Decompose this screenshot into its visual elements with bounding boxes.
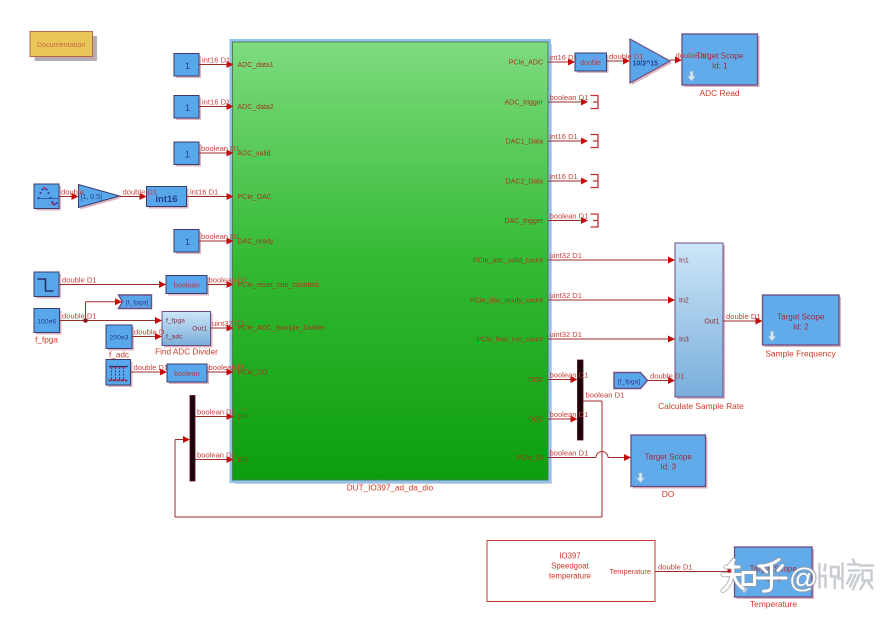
svg-text:f_fpga: f_fpga <box>35 336 58 345</box>
svg-text:double D1: double D1 <box>62 311 97 320</box>
svg-text:Speedgoat: Speedgoat <box>551 562 590 571</box>
svg-text:100e6: 100e6 <box>37 318 56 325</box>
svg-text:PCIe_DO: PCIe_DO <box>238 370 269 377</box>
svg-text:Out1: Out1 <box>704 319 719 326</box>
svg-text:int16 D1: int16 D1 <box>550 172 578 181</box>
svg-text:@: @ <box>789 563 817 594</box>
svg-text:Documentation: Documentation <box>37 40 85 49</box>
svg-text:PCIe_DI: PCIe_DI <box>517 455 544 462</box>
svg-text:1: 1 <box>185 149 190 159</box>
svg-text:DI6: DI6 <box>238 414 249 421</box>
svg-text:DUT_IO397_ad_da_dio: DUT_IO397_ad_da_dio <box>347 484 434 493</box>
svg-text:double D1: double D1 <box>123 187 158 196</box>
svg-text:PCIe_ADC: PCIe_ADC <box>509 60 543 67</box>
svg-text:int16: int16 <box>155 194 177 205</box>
svg-text:IO397: IO397 <box>559 552 580 561</box>
svg-text:ADC Read: ADC Read <box>699 88 739 98</box>
svg-text:DAC2_Data: DAC2_Data <box>506 179 543 186</box>
svg-text:[f_fpga]: [f_fpga] <box>126 300 149 307</box>
svg-text:ADC_data2: ADC_data2 <box>238 104 274 111</box>
svg-text:boolean: boolean <box>174 369 200 378</box>
svg-text:f_fpga: f_fpga <box>166 318 185 325</box>
svg-text:int16 D1: int16 D1 <box>202 97 230 106</box>
svg-text:DO2: DO2 <box>529 417 544 424</box>
svg-text:boolean D1: boolean D1 <box>201 144 240 153</box>
svg-text:1: 1 <box>185 103 190 113</box>
svg-text:Temperature: Temperature <box>610 567 652 576</box>
svg-text:Target Scope: Target Scope <box>777 313 825 322</box>
svg-text:DI6: DI6 <box>238 457 249 464</box>
svg-text:Out1: Out1 <box>192 326 207 333</box>
svg-text:Find ADC Divider: Find ADC Divider <box>155 348 218 357</box>
svg-text:In3: In3 <box>679 337 689 344</box>
svg-text:boolean D1: boolean D1 <box>550 448 589 457</box>
svg-text:boolean: boolean <box>174 281 200 290</box>
svg-text:Temperature: Temperature <box>750 599 797 609</box>
svg-text:int16 D1: int16 D1 <box>550 53 578 62</box>
svg-text:DO: DO <box>662 489 675 499</box>
svg-text:PCIe_dac_ready_count: PCIe_dac_ready_count <box>470 298 543 305</box>
svg-text:double D1: double D1 <box>726 312 761 321</box>
svg-text:Id: 2: Id: 2 <box>793 323 809 332</box>
svg-text:boolean D1: boolean D1 <box>197 450 236 459</box>
svg-text:ADC_data1: ADC_data1 <box>238 62 274 69</box>
svg-text:Id: 1: Id: 1 <box>712 62 728 71</box>
svg-text:[f_fpga]: [f_fpga] <box>618 379 641 386</box>
svg-text:int16 D1: int16 D1 <box>190 187 218 196</box>
svg-text:boolean D1: boolean D1 <box>550 410 589 419</box>
svg-text:double: double <box>580 60 601 67</box>
svg-text:In2: In2 <box>679 298 689 305</box>
svg-text:double D1: double D1 <box>650 371 685 380</box>
svg-text:ADC_valid: ADC_valid <box>238 151 271 158</box>
svg-text:PCIe_free_run_count: PCIe_free_run_count <box>476 337 543 344</box>
svg-text:temperature: temperature <box>549 572 591 581</box>
svg-text:uint32 D1: uint32 D1 <box>550 330 583 339</box>
svg-text:1: 1 <box>185 61 190 71</box>
svg-text:DAC_trigger: DAC_trigger <box>504 218 543 225</box>
svg-text:ADC_trigger: ADC_trigger <box>504 100 543 107</box>
svg-text:DAC1_Data: DAC1_Data <box>506 139 543 146</box>
svg-text:int16 D1: int16 D1 <box>202 55 230 64</box>
svg-text:uint32 D1: uint32 D1 <box>550 291 583 300</box>
svg-text:Target Scope: Target Scope <box>645 453 693 462</box>
svg-text:f_adc: f_adc <box>109 351 129 360</box>
svg-text:1: 1 <box>185 237 190 247</box>
svg-text:double D1: double D1 <box>134 363 169 372</box>
svg-text:int16 D1: int16 D1 <box>550 132 578 141</box>
svg-text:Calculate Sample Rate: Calculate Sample Rate <box>658 401 744 411</box>
svg-text:f_adc: f_adc <box>166 334 183 341</box>
svg-text:PCIe_adc_valid_count: PCIe_adc_valid_count <box>473 258 543 265</box>
svg-text:boolean D1: boolean D1 <box>550 370 589 379</box>
svg-text:uint32 D1: uint32 D1 <box>550 251 583 260</box>
svg-text:boolean D1: boolean D1 <box>201 232 240 241</box>
svg-text:boolean D1: boolean D1 <box>586 391 625 400</box>
svg-text:boolean D1: boolean D1 <box>550 93 589 102</box>
svg-text:double: double <box>61 187 84 196</box>
svg-text:boolean D1: boolean D1 <box>197 407 236 416</box>
svg-text:DAC_ready: DAC_ready <box>238 239 275 246</box>
svg-text:double D1: double D1 <box>62 275 97 284</box>
svg-text:DO0: DO0 <box>529 377 544 384</box>
svg-text:boolean D1: boolean D1 <box>550 211 589 220</box>
svg-text:double D1: double D1 <box>676 51 711 60</box>
svg-text:double D1: double D1 <box>658 562 693 571</box>
svg-text:double D: double D <box>134 327 165 336</box>
svg-text:PCIe_DAC: PCIe_DAC <box>238 194 272 201</box>
svg-text:PCIe_ADC_Sample_Divider: PCIe_ADC_Sample_Divider <box>238 325 326 332</box>
svg-text:In1: In1 <box>679 258 689 265</box>
svg-text:200e3: 200e3 <box>110 335 129 342</box>
svg-text:Id: 3: Id: 3 <box>660 463 676 472</box>
svg-text:Sample Frequency: Sample Frequency <box>765 349 836 359</box>
svg-text:PCIe_reset_rate_counters: PCIe_reset_rate_counters <box>238 282 320 289</box>
svg-text:double D1: double D1 <box>609 52 644 61</box>
